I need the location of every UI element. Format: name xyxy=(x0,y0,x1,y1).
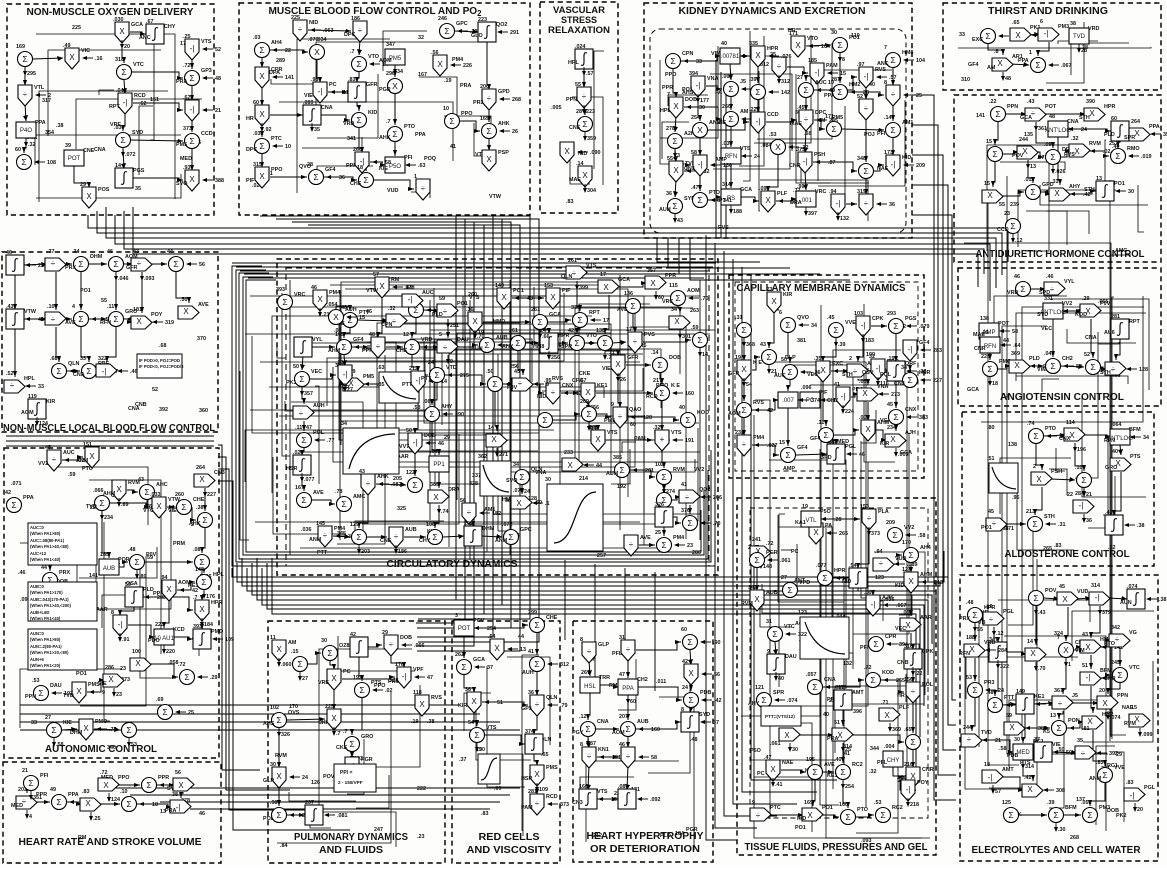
svg-text:X: X xyxy=(471,697,477,706)
wire xyxy=(1110,640,1115,741)
wire xyxy=(341,375,353,384)
svg-text:Σ: Σ xyxy=(845,812,850,822)
panel border: NON-MUSCLE LOCAL BLOOD FLOW CONTROL xyxy=(2,252,218,432)
wire xyxy=(1138,185,1144,232)
svg-text:47: 47 xyxy=(619,672,625,678)
wire xyxy=(1067,722,1084,728)
input stub xyxy=(153,321,163,323)
multiplier xyxy=(482,150,496,171)
svg-text:Σ: Σ xyxy=(38,688,43,698)
svg-text:X: X xyxy=(862,389,868,398)
wire xyxy=(14,327,16,377)
svg-text:.54: .54 xyxy=(849,563,857,569)
svg-text:Σ: Σ xyxy=(429,409,434,419)
svg-text:.39: .39 xyxy=(749,77,757,83)
multiplier xyxy=(103,674,124,687)
wire xyxy=(1091,606,1100,638)
wire xyxy=(495,392,497,431)
svg-text:374: 374 xyxy=(811,398,820,404)
function block QLN xyxy=(343,428,399,474)
svg-text:.48: .48 xyxy=(128,547,136,553)
wire xyxy=(1044,113,1086,115)
svg-text:35: 35 xyxy=(1077,738,1083,744)
svg-text:CNA: CNA xyxy=(73,372,85,378)
summer xyxy=(197,575,212,590)
bus wire xyxy=(239,273,708,559)
svg-text:VEC: VEC xyxy=(311,369,322,375)
integrator xyxy=(303,105,321,125)
svg-text:X: X xyxy=(1015,31,1021,40)
wire xyxy=(1001,192,1024,196)
svg-text:.83: .83 xyxy=(1054,543,1062,549)
svg-text:184: 184 xyxy=(675,831,684,837)
bus wire xyxy=(624,568,626,654)
multiplier xyxy=(1010,28,1031,41)
wire xyxy=(1120,445,1121,455)
svg-text:NID: NID xyxy=(309,20,318,26)
wire xyxy=(381,296,644,513)
svg-text:X: X xyxy=(1102,699,1108,708)
svg-text:12: 12 xyxy=(403,332,409,338)
multiplier xyxy=(1031,472,1052,485)
wire xyxy=(810,385,907,775)
svg-text:44: 44 xyxy=(518,634,524,640)
svg-text:247: 247 xyxy=(374,827,383,833)
multiplier xyxy=(982,190,1003,203)
wire xyxy=(240,371,249,540)
svg-text:30: 30 xyxy=(270,762,276,768)
svg-text:DRA: DRA xyxy=(448,487,460,493)
svg-text:128: 128 xyxy=(643,415,652,421)
svg-text:36: 36 xyxy=(465,687,471,693)
svg-text:.83: .83 xyxy=(481,811,489,817)
bus wire xyxy=(242,558,940,586)
svg-text:58: 58 xyxy=(385,160,391,166)
svg-text:DPC: DPC xyxy=(815,110,826,116)
svg-text:QAO: QAO xyxy=(629,407,641,413)
wire xyxy=(202,528,205,553)
svg-text:.008: .008 xyxy=(859,415,870,421)
svg-text:X: X xyxy=(1134,129,1140,138)
wire xyxy=(1035,487,1042,515)
svg-text:127: 127 xyxy=(902,567,911,573)
summer xyxy=(198,513,213,528)
wire xyxy=(611,449,630,484)
wire xyxy=(311,346,335,348)
svg-text:VTS: VTS xyxy=(201,39,212,45)
output stub xyxy=(837,212,839,220)
svg-text:45: 45 xyxy=(1059,584,1065,590)
wire xyxy=(1090,655,1092,669)
svg-text:52: 52 xyxy=(215,47,221,53)
svg-text:AHK: AHK xyxy=(377,474,389,480)
svg-text:369: 369 xyxy=(892,727,901,733)
wire xyxy=(412,318,416,338)
wire xyxy=(359,655,362,681)
wire xyxy=(858,334,863,362)
output stub xyxy=(730,205,732,213)
wire xyxy=(989,353,991,360)
input stub xyxy=(1147,598,1157,600)
wire xyxy=(811,519,816,527)
svg-text:CHY: CHY xyxy=(887,758,900,764)
svg-text:ANM: ANM xyxy=(309,537,322,543)
wire xyxy=(757,43,832,139)
svg-text:÷: ÷ xyxy=(989,615,994,624)
svg-text:÷: ÷ xyxy=(804,115,809,124)
svg-text:.47: .47 xyxy=(764,755,772,761)
svg-text:DOB: DOB xyxy=(685,97,697,103)
svg-text:PFI: PFI xyxy=(860,645,869,651)
svg-text:÷: ÷ xyxy=(587,752,592,761)
svg-text:PLD: PLD xyxy=(1029,356,1040,362)
wire xyxy=(394,142,396,156)
svg-text:4: 4 xyxy=(29,814,32,820)
svg-text:Σ: Σ xyxy=(755,87,760,97)
svg-text:PGL: PGL xyxy=(1144,785,1156,791)
svg-text:AMC: AMC xyxy=(1115,248,1127,254)
svg-text:43: 43 xyxy=(527,296,533,302)
svg-text:Σ: Σ xyxy=(474,730,479,740)
multiplier xyxy=(693,123,708,138)
wire xyxy=(1029,34,1040,35)
svg-text:POT: POT xyxy=(998,321,1010,327)
svg-text:344: 344 xyxy=(870,746,879,752)
wire xyxy=(1003,704,1016,705)
svg-text:141: 141 xyxy=(285,75,294,81)
bus wire xyxy=(912,215,956,700)
svg-text:VTS: VTS xyxy=(607,430,618,436)
wire xyxy=(577,281,580,311)
output stub xyxy=(1035,122,1037,130)
input stub xyxy=(877,76,887,78)
svg-text:.98: .98 xyxy=(311,77,319,83)
bus wire xyxy=(715,60,717,238)
wire xyxy=(429,300,431,520)
svg-text:CNE: CNE xyxy=(83,148,95,154)
svg-text:.26: .26 xyxy=(813,370,821,376)
svg-text:GCA: GCA xyxy=(131,22,143,28)
svg-text:Σ: Σ xyxy=(86,366,91,376)
svg-text:POL: POL xyxy=(922,682,934,688)
svg-text:Σ: Σ xyxy=(785,320,790,330)
svg-text:AUM: AUM xyxy=(606,471,619,477)
svg-text:28: 28 xyxy=(863,90,869,96)
input stub xyxy=(213,638,223,640)
wire xyxy=(488,139,490,151)
svg-text:PPA: PPA xyxy=(23,495,34,501)
svg-text:185: 185 xyxy=(808,58,817,64)
bus wire xyxy=(912,95,956,800)
svg-text:392: 392 xyxy=(159,407,168,413)
svg-text:CNA: CNA xyxy=(824,677,836,683)
wire xyxy=(487,40,489,90)
svg-text:Σ: Σ xyxy=(741,325,746,335)
svg-text:.026: .026 xyxy=(781,54,792,60)
svg-text:X: X xyxy=(650,279,656,288)
bus wire xyxy=(236,266,713,268)
svg-text:.087: .087 xyxy=(193,547,204,553)
svg-text:50: 50 xyxy=(1066,750,1072,756)
svg-text:129: 129 xyxy=(350,522,359,528)
wire xyxy=(1099,640,1111,647)
summer xyxy=(445,114,460,129)
wire xyxy=(503,383,514,385)
summer xyxy=(1111,149,1126,164)
wire xyxy=(861,410,876,443)
integrator xyxy=(125,587,143,607)
block AUB xyxy=(99,559,119,575)
input stub xyxy=(1129,155,1139,157)
bus wire xyxy=(97,211,1002,275)
wire xyxy=(435,505,439,528)
svg-text:33: 33 xyxy=(38,384,44,390)
svg-text:AVE: AVE xyxy=(617,307,628,313)
svg-text:104: 104 xyxy=(916,58,925,64)
panel border: MUSCLE BLOOD FLOW CONTROL AND PO2 xyxy=(239,3,530,215)
svg-text:.62: .62 xyxy=(139,101,147,107)
svg-text:266: 266 xyxy=(353,147,362,153)
wire xyxy=(756,56,772,63)
svg-text:.83: .83 xyxy=(348,77,356,83)
svg-text:35: 35 xyxy=(135,186,141,192)
svg-text:X: X xyxy=(178,781,184,790)
svg-text:Σ: Σ xyxy=(787,585,792,595)
output stub xyxy=(839,53,841,61)
svg-text:196: 196 xyxy=(1077,447,1086,453)
svg-text:VRC: VRC xyxy=(662,299,673,305)
svg-text:56: 56 xyxy=(460,498,466,504)
svg-text:342: 342 xyxy=(1111,625,1120,631)
wire xyxy=(964,243,1111,268)
svg-text:÷: ÷ xyxy=(23,90,28,99)
output stub xyxy=(118,498,120,506)
svg-text:VYL: VYL xyxy=(312,337,323,343)
svg-text:59: 59 xyxy=(439,296,445,302)
wire xyxy=(302,137,362,148)
svg-text:-|: -| xyxy=(123,98,128,107)
svg-text:8: 8 xyxy=(580,637,583,643)
svg-text:AVE: AVE xyxy=(65,320,76,326)
svg-text:33: 33 xyxy=(31,720,37,726)
svg-text:ANC: ANC xyxy=(139,35,151,41)
wire xyxy=(289,792,356,801)
wire xyxy=(779,514,785,687)
svg-text:Σ: Σ xyxy=(728,114,733,124)
svg-text:.70: .70 xyxy=(701,296,709,302)
wire xyxy=(660,60,687,164)
wire xyxy=(89,318,107,320)
wire xyxy=(842,708,844,726)
wire xyxy=(376,484,406,485)
svg-text:.42: .42 xyxy=(1083,192,1091,198)
wire xyxy=(995,660,998,696)
wire xyxy=(1003,152,1019,154)
input stub xyxy=(26,385,36,387)
wire xyxy=(605,295,609,334)
wire xyxy=(20,669,122,728)
wire xyxy=(835,686,926,753)
svg-text:.68: .68 xyxy=(50,356,58,362)
wire xyxy=(62,457,83,460)
summer xyxy=(43,573,58,588)
block xyxy=(96,364,117,377)
svg-text:AHS: AHS xyxy=(263,721,275,727)
svg-text:VTC: VTC xyxy=(1129,665,1140,671)
wire xyxy=(438,472,440,488)
svg-text:48: 48 xyxy=(1049,114,1055,120)
summer xyxy=(578,117,593,132)
svg-text:.092: .092 xyxy=(650,797,661,803)
svg-text:260: 260 xyxy=(722,104,731,110)
svg-text:.46: .46 xyxy=(1105,510,1113,516)
svg-text:VVE: VVE xyxy=(845,320,856,326)
bus wire xyxy=(218,469,320,810)
svg-text:PRA: PRA xyxy=(165,808,176,814)
svg-text:.62: .62 xyxy=(183,95,191,101)
svg-text:CHE: CHE xyxy=(396,348,408,354)
svg-text:X: X xyxy=(890,435,896,444)
svg-text:GF4: GF4 xyxy=(325,167,335,173)
svg-text:.32: .32 xyxy=(1071,136,1079,142)
svg-text:CNA: CNA xyxy=(94,147,106,153)
multiplier xyxy=(1082,716,1103,729)
svg-text:.057: .057 xyxy=(806,672,817,678)
svg-text:PTT: PTT xyxy=(317,550,328,556)
svg-text:341: 341 xyxy=(723,198,732,204)
wire xyxy=(358,320,388,321)
summer xyxy=(47,723,62,738)
svg-text:AUB=.043(170-PA1): AUB=.043(170-PA1) xyxy=(30,597,69,602)
svg-text:.03: .03 xyxy=(253,35,261,41)
svg-text:60: 60 xyxy=(1111,116,1117,122)
svg-text:Σ: Σ xyxy=(409,342,414,352)
wire xyxy=(333,367,698,462)
svg-text:47: 47 xyxy=(427,675,433,681)
wire xyxy=(204,488,206,511)
svg-text:149: 149 xyxy=(495,283,504,289)
svg-text:37: 37 xyxy=(1034,737,1040,743)
svg-text:SYD: SYD xyxy=(132,130,143,136)
svg-text:48: 48 xyxy=(1005,76,1011,82)
wire xyxy=(892,103,894,121)
svg-text:X: X xyxy=(771,297,777,306)
input stub xyxy=(70,801,80,803)
wire xyxy=(1066,607,1068,641)
svg-text:Σ: Σ xyxy=(675,293,680,303)
wire xyxy=(191,57,193,69)
svg-text:Σ: Σ xyxy=(685,415,690,425)
bus wire xyxy=(356,222,511,628)
svg-text:Σ: Σ xyxy=(199,557,204,567)
svg-text:÷: ÷ xyxy=(366,479,371,488)
svg-text:Σ: Σ xyxy=(586,409,591,419)
svg-text:GLP: GLP xyxy=(598,642,609,648)
svg-text:30: 30 xyxy=(545,477,551,483)
wire xyxy=(1044,598,1059,599)
svg-text:369: 369 xyxy=(1011,351,1020,357)
svg-text:PGS: PGS xyxy=(905,316,917,322)
svg-text:PR3: PR3 xyxy=(984,680,995,686)
svg-text:348: 348 xyxy=(857,156,866,162)
svg-text:191: 191 xyxy=(685,438,694,444)
wire xyxy=(1090,783,1105,806)
svg-text:218: 218 xyxy=(910,802,919,808)
wire xyxy=(598,685,619,687)
wire xyxy=(912,750,914,768)
wire xyxy=(626,364,651,366)
wire xyxy=(470,330,660,524)
svg-text:PIF: PIF xyxy=(562,288,571,294)
svg-text:318: 318 xyxy=(115,57,124,63)
svg-text:.045: .045 xyxy=(1044,351,1055,357)
integrator xyxy=(1016,694,1034,714)
svg-text:HPR: HPR xyxy=(211,600,222,606)
svg-text:Σ: Σ xyxy=(833,325,838,335)
multiplier xyxy=(1080,304,1101,317)
wire xyxy=(362,381,409,384)
block xyxy=(313,82,327,103)
wire xyxy=(909,358,911,371)
wire xyxy=(743,418,745,436)
svg-text:370: 370 xyxy=(197,336,206,342)
svg-text:169: 169 xyxy=(804,800,813,806)
svg-text:260: 260 xyxy=(175,492,184,498)
input stub xyxy=(904,164,914,166)
wire xyxy=(367,287,534,342)
wire xyxy=(1067,329,1136,343)
summer xyxy=(185,71,200,86)
svg-text:.45: .45 xyxy=(827,315,835,321)
svg-text:50: 50 xyxy=(293,364,299,370)
svg-text:CHY: CHY xyxy=(419,538,431,544)
svg-text:MED: MED xyxy=(1016,750,1030,756)
output stub xyxy=(1035,662,1037,670)
wire xyxy=(588,693,590,720)
svg-text:Σ: Σ xyxy=(341,342,346,352)
svg-text:STRESS: STRESS xyxy=(561,15,597,25)
wire xyxy=(316,42,479,111)
svg-text:KID: KID xyxy=(895,583,904,589)
svg-text:Σ: Σ xyxy=(51,725,56,735)
bus wire xyxy=(912,185,956,725)
wire xyxy=(681,56,721,61)
wire xyxy=(814,77,857,90)
svg-text:45: 45 xyxy=(988,509,994,515)
svg-text:DPC: DPC xyxy=(344,32,355,38)
summer xyxy=(388,127,403,142)
svg-text:17: 17 xyxy=(626,327,632,333)
svg-text:18: 18 xyxy=(357,165,363,171)
output stub xyxy=(119,633,121,641)
svg-text:TVD: TVD xyxy=(1073,34,1086,40)
svg-text:AM: AM xyxy=(740,109,749,115)
svg-text:PRX: PRX xyxy=(59,570,70,576)
wire xyxy=(320,115,350,120)
wire xyxy=(1119,648,1121,666)
svg-text:KCD: KCD xyxy=(173,627,185,633)
wire xyxy=(102,511,109,558)
panel border: HEART HYPERTROPHY OR DETERIORATION xyxy=(573,621,713,862)
block xyxy=(113,615,127,636)
svg-text:-|: -| xyxy=(988,773,993,782)
svg-text:CNX: CNX xyxy=(1059,436,1071,442)
svg-text:254: 254 xyxy=(691,115,700,121)
svg-text:.041: .041 xyxy=(116,88,127,94)
input stub xyxy=(769,91,779,93)
wire xyxy=(743,31,750,181)
panel border: VASCULAR STRESS RELAXATION xyxy=(540,2,618,213)
